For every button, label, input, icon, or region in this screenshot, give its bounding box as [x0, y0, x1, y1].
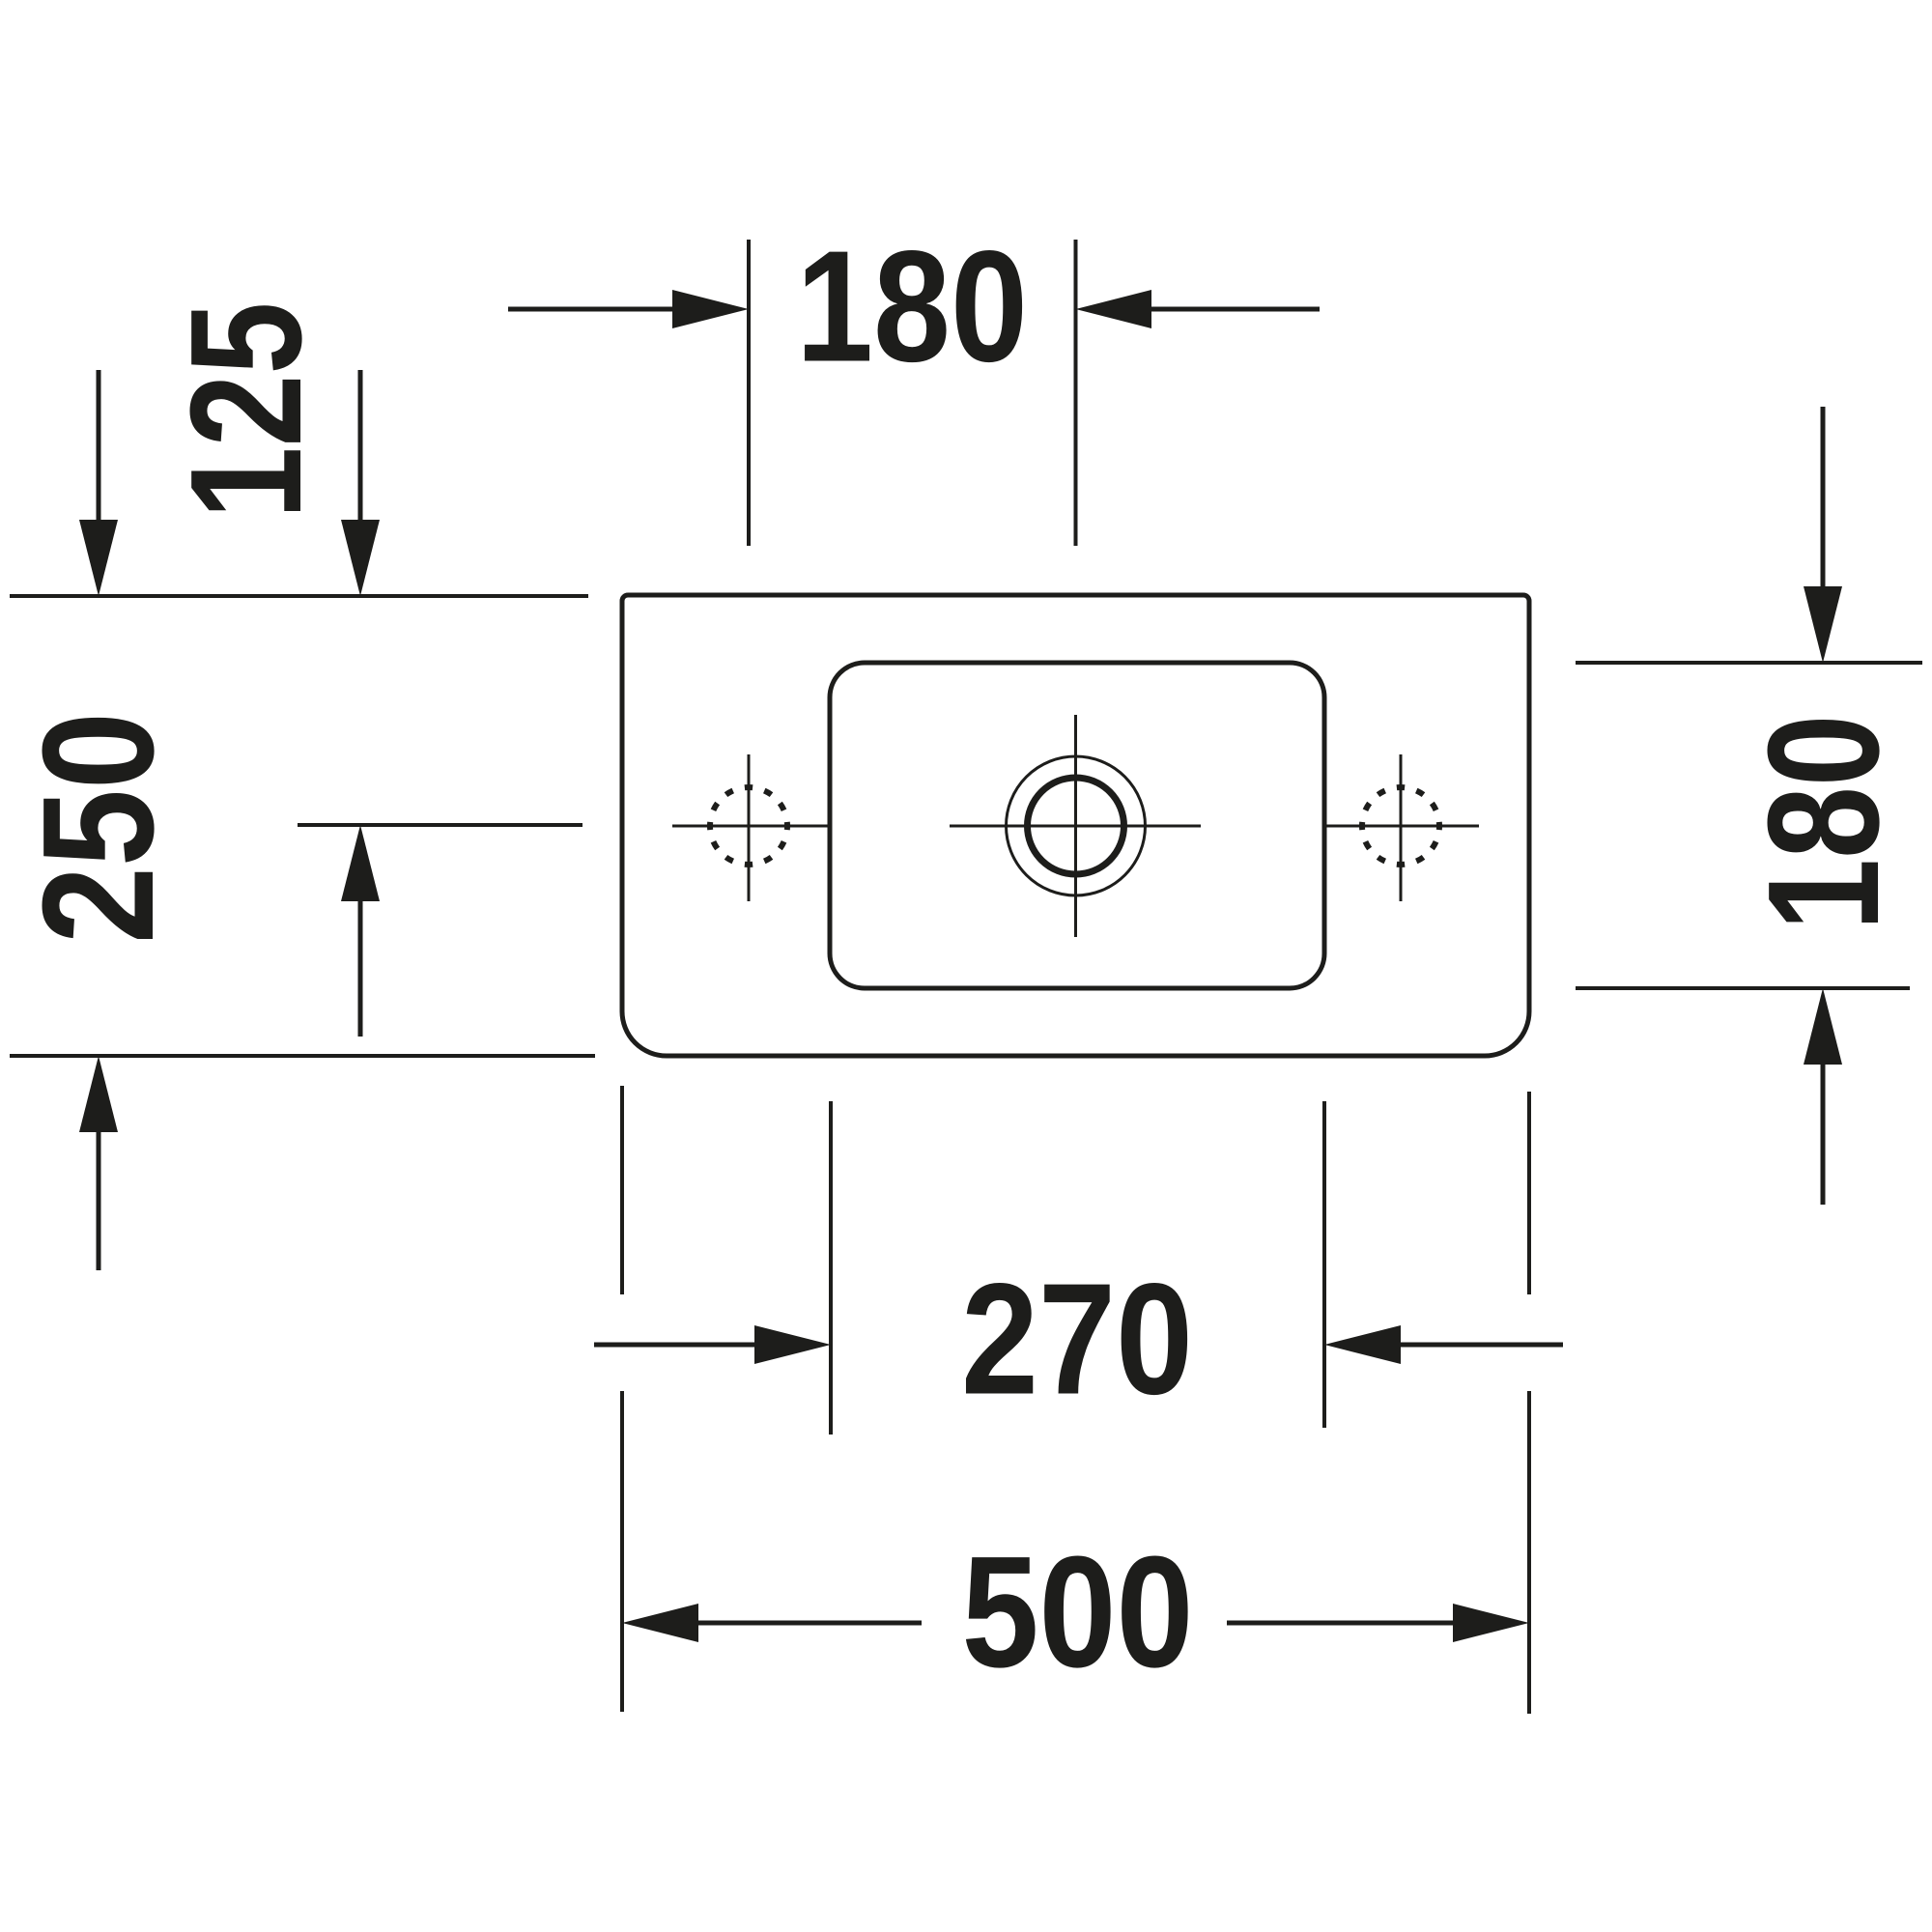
right optional hole dotted circle — [1362, 787, 1439, 865]
right dim 180 up arrow tail — [1821, 1059, 1826, 1205]
dim 270 right arrowhead — [1324, 1325, 1401, 1364]
center hole vertical crosshair — [1074, 715, 1077, 937]
svg-text:500: 500 — [962, 1523, 1194, 1700]
dim 250 up arrow tail — [97, 1125, 101, 1270]
center faucet hole outer circle — [1007, 756, 1146, 895]
dim 500 left extension line upper segment — [620, 1086, 624, 1294]
svg-text:180: 180 — [796, 218, 1028, 395]
dim 270 left extension line — [829, 1101, 833, 1435]
right dim 180 top extension line — [1576, 661, 1922, 665]
dim 500 left arrowhead — [622, 1604, 698, 1642]
dim 500 left line segment — [698, 1621, 922, 1626]
right hole horizontal crosshair — [1324, 825, 1479, 828]
right dim 180 down arrowhead — [1804, 586, 1842, 663]
dim 500 right line segment — [1227, 1621, 1453, 1626]
dim 500 right extension line lower segment — [1527, 1391, 1531, 1714]
right dim 180 bottom extension line — [1576, 986, 1910, 990]
top dim 180 left extension line — [747, 240, 751, 546]
dim 270 right extension line — [1322, 1101, 1326, 1428]
left hole vertical crosshair — [748, 754, 751, 901]
svg-text:250: 250 — [10, 712, 186, 944]
dim 125 up arrowhead — [341, 825, 380, 901]
inner basin bowl — [830, 663, 1324, 988]
dim 250 down arrow tail — [97, 370, 101, 526]
center hole horizontal crosshair — [950, 825, 1201, 828]
dim 250 up arrowhead — [79, 1056, 118, 1132]
washbasin outer rim — [622, 595, 1529, 1056]
left dim 250 bottom boundary line — [10, 1054, 595, 1058]
right dim 180 down arrow tail — [1821, 407, 1826, 592]
dim 270 left arrow tail — [594, 1343, 758, 1348]
left dim 250 top boundary line — [10, 594, 588, 598]
dim 500 right extension line upper segment — [1527, 1092, 1531, 1294]
top dim 180 right arrowhead — [1076, 290, 1152, 328]
right dim 180 up arrowhead — [1804, 988, 1842, 1065]
right hole vertical crosshair — [1400, 754, 1403, 901]
svg-text:180: 180 — [1735, 715, 1912, 931]
dim 125 down arrowhead — [341, 520, 380, 596]
dim 125 down arrow tail — [358, 370, 363, 526]
dim 125 up arrow tail — [358, 894, 363, 1037]
svg-text:270: 270 — [961, 1251, 1193, 1428]
center faucet hole inner circle — [1028, 778, 1124, 874]
dim 125 centerline extension — [298, 823, 582, 827]
dim 500 left extension line lower segment — [620, 1391, 624, 1712]
dim 270 right arrow tail — [1397, 1343, 1563, 1348]
dim 500 right arrowhead — [1453, 1604, 1529, 1642]
dim 270 left arrowhead — [754, 1325, 831, 1364]
top dim 180 left arrowhead — [672, 290, 749, 328]
dim 250 down arrowhead — [79, 520, 118, 596]
left hole horizontal crosshair — [672, 825, 830, 828]
left optional hole dotted circle — [710, 787, 787, 865]
svg-text:125: 125 — [157, 302, 334, 520]
top dim 180 right arrow tail — [1151, 307, 1320, 312]
top dim 180 right extension line — [1074, 240, 1078, 546]
top dim 180 left arrow tail — [508, 307, 676, 312]
